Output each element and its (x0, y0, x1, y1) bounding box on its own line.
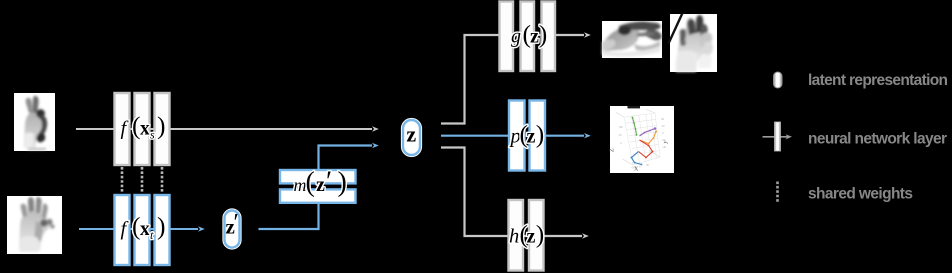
svg-text:): ) (536, 220, 545, 249)
legend pill icon (latent representation) (774, 72, 783, 88)
label g(z) (511, 19, 547, 48)
svg-text:): ) (157, 111, 166, 140)
wire z to p(z) (straight blue arrow) (441, 135, 584, 137)
slash separator (669, 13, 683, 44)
svg-text:): ) (539, 19, 548, 48)
svg-text:): ) (536, 120, 545, 149)
svg-text:z: z (316, 174, 325, 196)
svg-text:50: 50 (619, 133, 623, 137)
svg-text:x: x (140, 119, 150, 140)
encoder stack f(x_s) (115, 93, 170, 165)
svg-text:s: s (150, 128, 155, 142)
label f(x_t) (121, 212, 166, 243)
svg-text:-40: -40 (662, 145, 666, 149)
shared weights dashed links (121, 167, 124, 192)
wire z to h(z) (gray elbow arrow) (441, 148, 582, 237)
3D pose plot (610, 106, 675, 173)
svg-text:z: z (527, 226, 536, 248)
encoder stack f(x_t) (115, 195, 170, 265)
label m(z') (294, 167, 347, 199)
reconstructed depth image 2 (open hand) (670, 14, 717, 72)
latent z' pill (225, 211, 240, 248)
svg-text:(: ( (306, 167, 315, 198)
svg-text:shared weights: shared weights (808, 186, 913, 203)
reconstructed depth image 1 (side-view hand) (602, 21, 662, 58)
svg-text:′: ′ (326, 167, 332, 198)
svg-text:): ) (157, 212, 166, 241)
3D grid panes (616, 110, 660, 166)
svg-text:): ) (338, 167, 347, 198)
decoder stack g(z) (500, 2, 556, 72)
label h(z) (509, 220, 544, 249)
label z' (226, 210, 239, 239)
svg-text:latent representation: latent representation (808, 72, 948, 89)
legend shared-weights icon (776, 182, 779, 204)
skeleton red finger (639, 140, 653, 158)
latent z pill (403, 120, 420, 155)
svg-text:z: z (406, 122, 416, 147)
svg-text:Z: Z (610, 148, 616, 152)
label p(z) (509, 120, 545, 149)
svg-text:40: 40 (661, 117, 665, 121)
svg-text:z: z (530, 25, 539, 47)
svg-text:x: x (140, 219, 150, 240)
wire x_t through f(x_t) stack to z' (blue arrow) (79, 228, 198, 230)
pose stack p(z) (509, 101, 545, 171)
svg-text:X: X (634, 167, 639, 173)
skeleton orange finger (641, 132, 657, 144)
svg-text:h: h (509, 226, 519, 248)
skeleton blue thumb (632, 152, 642, 165)
svg-text:g: g (511, 25, 521, 47)
tick labels (619, 117, 667, 170)
wire z' to m(z') to z (blue elbow arrow) (259, 146, 373, 230)
skeleton purple finger (640, 129, 656, 137)
wire x_s through f(x_s) stack to z (gray arrow) (76, 128, 372, 130)
svg-text:neural network layer: neural network layer (808, 131, 947, 148)
mapping stack m(z') (280, 170, 356, 203)
legend layer icon (neural network layer) (763, 122, 793, 151)
svg-text:20: 20 (662, 124, 666, 128)
svg-text:100: 100 (619, 125, 624, 129)
wire z to g(z) (gray elbow arrow) (441, 35, 584, 124)
input depth image x_s (top-left hand) (14, 93, 55, 151)
svg-text:50: 50 (646, 163, 650, 167)
heatmap stack h(z) (509, 200, 544, 271)
svg-text:′: ′ (234, 210, 239, 236)
svg-text:z: z (527, 126, 536, 148)
label f(x_s) (121, 111, 166, 142)
plot frame fragment (628, 106, 641, 108)
input depth image x_t (bottom-left hand) (7, 196, 62, 254)
skeleton green finger (633, 118, 637, 136)
